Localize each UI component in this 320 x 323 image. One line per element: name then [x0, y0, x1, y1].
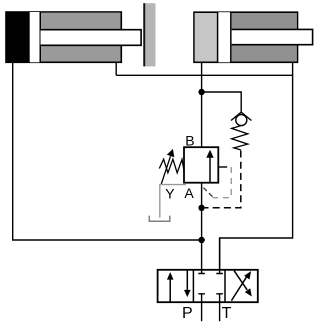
wire: branch to check valve: [202, 92, 242, 112]
check valve CV1 ball: [236, 115, 247, 126]
cylinder CYL1 cap-end fluid (black): [6, 12, 30, 63]
cylinder CYL1 (left) body: [6, 12, 121, 62]
cylinder CYL2 rod: [232, 29, 313, 44]
wire: left cylinder cap-end down and right to junction: [13, 63, 202, 240]
sequence valve V1 body: [184, 147, 218, 183]
pilot line diagonal (dark dashed): [204, 188, 213, 197]
node: junction dot lower (main tee): [198, 237, 204, 243]
DCV box divider right: [224, 270, 226, 302]
cylinder CYL2 piston: [217, 12, 232, 62]
DCV left box up arrow: [167, 272, 174, 301]
sequence valve V1 pilot stub (right): [218, 166, 227, 168]
svg-text:A: A: [184, 185, 194, 201]
wire: valve A port down to DCV: [201, 183, 203, 270]
DCV box divider left: [192, 270, 194, 302]
wire: rod-end horizontal line: [116, 74, 292, 76]
check valve bypass line (black dashed): [205, 151, 241, 208]
svg-text:P: P: [182, 305, 193, 322]
cylinder CYL2 cap-end fluid (light gray): [195, 13, 217, 62]
node: junction dot upper: [198, 89, 204, 95]
sequence valve V1 flow arrow: [206, 150, 213, 183]
pilot line (gray dashed) from valve right stub down and to outlet: [213, 167, 232, 198]
load plate: [143, 3, 155, 66]
cylinder CYL1 piston: [30, 12, 41, 62]
sequence valve V1 spring: [159, 159, 184, 173]
sequence valve V1 adjustment arrow: [161, 149, 174, 184]
DCV top port stubs: [219, 238, 221, 270]
DCV right box crossed arrow 2 (down-right): [234, 271, 252, 297]
svg-text:B: B: [185, 133, 194, 149]
wire: right cylinder rod-end down the right side: [220, 63, 293, 270]
check valve CV1 seat: [231, 112, 251, 120]
check valve CV1 spring: [232, 126, 248, 150]
DCV center box blocked ports: [198, 270, 223, 302]
DCV left box down arrow: [184, 270, 191, 297]
svg-text:T: T: [222, 305, 232, 322]
cylinder CYL2 (right) body: [194, 12, 298, 62]
svg-text:Y: Y: [165, 186, 175, 202]
DCV bottom stubs (P and T lines): [201, 302, 203, 321]
wire: right cylinder cap-end down to valve B: [201, 63, 203, 147]
cylinder CYL2 rod-end shading (dark gray bars): [232, 13, 297, 62]
node: junction dot middle (pilot return): [198, 205, 204, 211]
cylinder CYL1 rod-end shading (gray bars): [41, 13, 120, 62]
DCV right box crossed arrow 1 (up-right): [231, 271, 251, 301]
DCV body outline: [158, 270, 258, 302]
wire: left cylinder rod-end down: [115, 63, 117, 76]
cylinder CYL1 rod: [41, 30, 142, 46]
drain line from Y (gray): [160, 185, 186, 218]
tank symbol: [149, 216, 170, 222]
